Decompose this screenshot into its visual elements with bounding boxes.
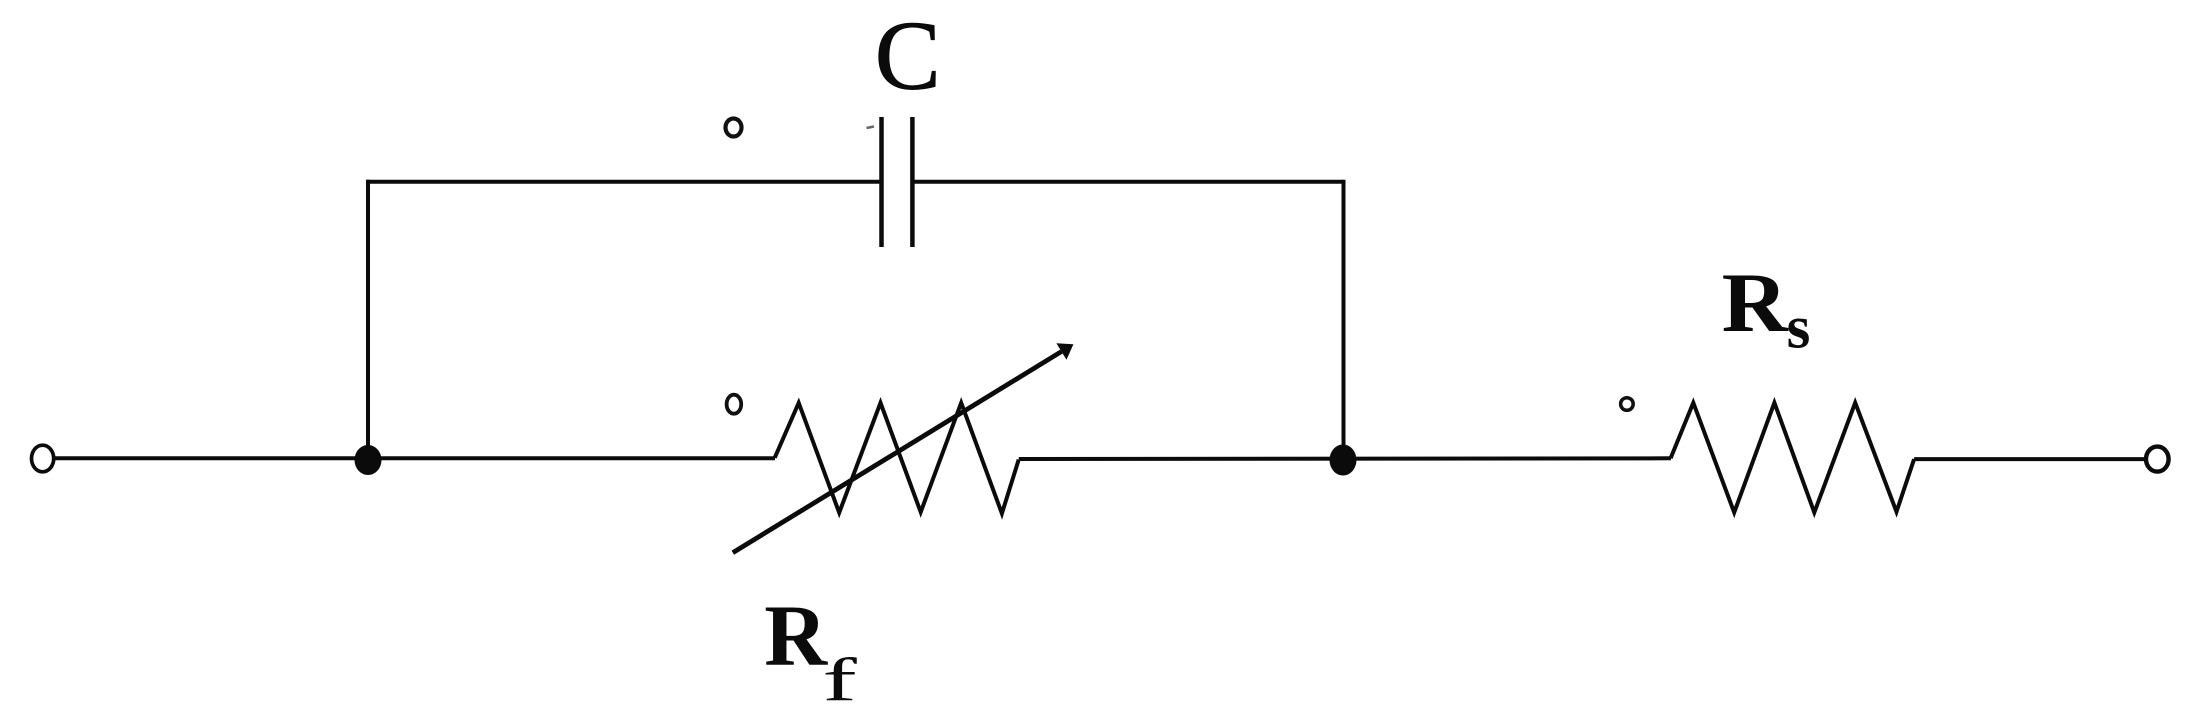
svg-text:R: R (764, 587, 828, 684)
svg-text:f: f (822, 647, 858, 714)
svg-text:C: C (875, 2, 941, 111)
svg-text:R: R (1722, 256, 1790, 350)
svg-text:s: s (1787, 295, 1811, 362)
